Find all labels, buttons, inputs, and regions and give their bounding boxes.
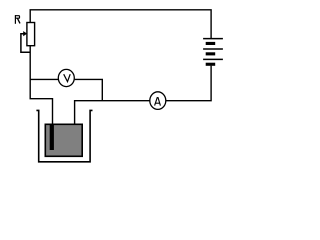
- electrode (left, in solution): [50, 124, 54, 150]
- battery B1: cell 3 negative plate: [206, 63, 216, 66]
- battery B1: cell 2 negative plate: [206, 52, 216, 55]
- wire: wiper lead down to bottom terminal: [21, 34, 30, 53]
- wire: ammeter to battery negative terminal: [166, 66, 212, 101]
- battery B1: cell 1 positive plate: [203, 38, 223, 40]
- label R: [15, 15, 20, 24]
- rheostat wiper arrow: [23, 31, 27, 36]
- wire: resistor bottom down to node, across and down to left electrode: [30, 46, 52, 125]
- battery B1: cell 3 positive plate: [203, 58, 223, 60]
- voltmeter V: [58, 69, 74, 86]
- wire: voltmeter left lead: [30, 78, 58, 80]
- wire: right electrode up and right to ammeter: [75, 101, 150, 125]
- battery B1: cell 2 positive plate: [203, 48, 223, 50]
- battery B1: cell 1 negative plate: [206, 42, 216, 45]
- electrolyte solution: [45, 124, 82, 156]
- wire: top rail from rheostat top to battery positive terminal: [30, 10, 211, 38]
- resistor R (rheostat body): [27, 23, 35, 46]
- wire: voltmeter right lead down to ammeter line: [75, 79, 103, 100]
- ammeter A: [150, 92, 166, 110]
- beaker: [36, 110, 92, 161]
